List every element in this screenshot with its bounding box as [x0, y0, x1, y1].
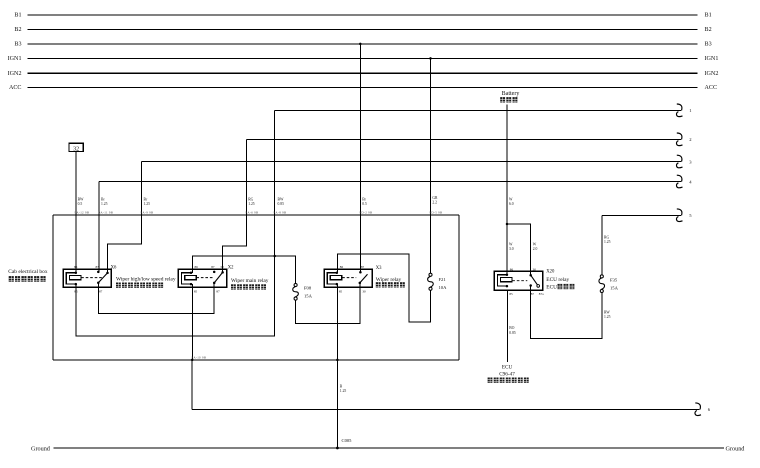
svg-text:87: 87 — [361, 265, 365, 269]
wire fuse F21 to relay X3 coil — [337, 254, 430, 322]
bus B2 — [28, 28, 698, 30]
svg-text:86: 86 — [195, 265, 199, 269]
svg-text:87: 87 — [216, 290, 220, 294]
wire right drop to bottom rail — [458, 215, 460, 360]
wire bottom rail to ground C005 — [336, 360, 338, 448]
svg-text:30: 30 — [362, 290, 366, 294]
svg-text:IGN1: IGN1 — [705, 56, 719, 62]
wire relay X3 coil return to bottom rail — [336, 284, 338, 360]
bus B3 — [28, 43, 698, 45]
wire main junction line — [53, 214, 459, 216]
svg-text:ACC: ACC — [705, 85, 718, 91]
svg-text:86: 86 — [510, 267, 514, 271]
svg-text:Ground: Ground — [726, 445, 746, 452]
fuse F08 15A — [294, 283, 297, 286]
svg-text:BW0.85: BW0.85 — [278, 198, 285, 207]
svg-text:B3: B3 — [705, 42, 712, 48]
relay X2 Wiper main relay — [178, 265, 268, 294]
relay X6 Wiper high/low speed relay — [63, 265, 176, 294]
svg-text:ECU: ECU — [546, 284, 557, 290]
svg-text:ECU: ECU — [502, 365, 513, 371]
svg-text:ECU relay: ECU relay — [546, 277, 569, 283]
svg-text:X2: X2 — [228, 265, 234, 270]
svg-text:86: 86 — [74, 265, 78, 269]
svg-text:Ground: Ground — [31, 445, 51, 452]
svg-text:9D-5 9B: 9D-5 9B — [430, 210, 443, 214]
wire fuse F08 to relay X3 switch — [296, 283, 360, 324]
svg-text:85: 85 — [509, 292, 513, 296]
svg-text:F35: F35 — [610, 277, 618, 282]
wire IGN1 column to fuse F21 — [430, 58, 432, 274]
svg-text:B2: B2 — [14, 27, 21, 33]
svg-text:9A-12 9B: 9A-12 9B — [75, 210, 90, 214]
svg-text:9A-6 9B: 9A-6 9B — [246, 210, 259, 214]
svg-text:15A: 15A — [304, 294, 313, 299]
relay X20 ECU relay — [494, 267, 574, 296]
wire battery branch to relay X20 pin 30 — [507, 224, 531, 275]
bus B1 — [28, 14, 698, 16]
svg-text:87: 87 — [211, 265, 215, 269]
off-page connector 4 — [677, 175, 682, 182]
wire bottom rail — [53, 359, 459, 361]
svg-text:15A: 15A — [610, 286, 619, 291]
svg-text:B1: B1 — [14, 12, 21, 18]
wire connector2 column to relay X2 pin 30 — [223, 139, 247, 272]
svg-text:IGN2: IGN2 — [705, 71, 719, 77]
svg-text:IGN1: IGN1 — [8, 56, 22, 62]
svg-text:32: 32 — [73, 146, 79, 152]
node junction on bottom rail left — [191, 359, 194, 362]
svg-text:9A-8 9B: 9A-8 9B — [274, 210, 287, 214]
wire relay X2 coil feed to fuse F08 — [192, 256, 295, 283]
off-page connector 3 — [677, 155, 682, 162]
node battery branch junction — [506, 223, 509, 226]
wire B3 column to relay X3 pin 87 — [359, 44, 361, 272]
wire connector1 column / X6 coil return loop — [76, 110, 275, 335]
svg-text:87: 87 — [531, 292, 535, 296]
svg-text:87: 87 — [99, 290, 103, 294]
bus IGN2 — [28, 72, 698, 74]
off-page connector 2 — [677, 133, 682, 140]
svg-text:RW1.25: RW1.25 — [604, 310, 611, 319]
svg-text:Wiper main relay: Wiper main relay — [231, 278, 269, 284]
svg-text:X20: X20 — [546, 269, 555, 274]
svg-text:B1: B1 — [705, 12, 712, 18]
wire relay X6 switch to relay X2 switch — [98, 283, 214, 314]
svg-text:30: 30 — [533, 267, 537, 271]
svg-text:30: 30 — [220, 265, 224, 269]
svg-text:9A-9 9B: 9A-9 9B — [141, 210, 154, 214]
wire relay X20 coil to ECU — [506, 290, 508, 362]
svg-text:Wiper high/low speed relay: Wiper high/low speed relay — [116, 276, 176, 282]
fuse F35 15A — [600, 275, 603, 278]
wire to connector 4 — [99, 181, 681, 183]
svg-text:B3: B3 — [14, 42, 21, 48]
ground rail — [54, 447, 725, 449]
svg-text:C005: C005 — [342, 438, 353, 443]
wire connector3 column to relay X6 pin 30 — [108, 162, 142, 273]
svg-text:9D-2 9B: 9D-2 9B — [360, 210, 373, 214]
svg-text:X6: X6 — [111, 265, 117, 270]
wire fuse F35 to connector 5 line — [601, 215, 603, 275]
wire relay X20 pin 87 to fuse F35 — [531, 286, 602, 339]
svg-text:F21: F21 — [439, 277, 447, 282]
svg-text:IGN2: IGN2 — [8, 71, 22, 77]
svg-text:Battery: Battery — [502, 91, 520, 97]
svg-text:86: 86 — [340, 265, 344, 269]
off-page connector 1 — [677, 104, 682, 111]
bus ACC — [28, 87, 698, 89]
svg-text:Wiper relay: Wiper relay — [376, 277, 402, 283]
node junction on coil feed — [273, 255, 276, 258]
bus IGN1 — [28, 57, 698, 59]
off-page connector 6 — [695, 403, 700, 410]
wire connector4 column to relay X6 pin 87 — [98, 182, 100, 272]
node tap on IGN1 — [429, 57, 432, 60]
svg-text:10A: 10A — [439, 285, 448, 290]
node tap on B3 — [359, 43, 362, 46]
svg-text:85: 85 — [194, 290, 198, 294]
svg-text:87a: 87a — [539, 292, 544, 296]
node junction on bottom rail right — [336, 359, 339, 362]
wire to connector 3 — [142, 161, 681, 163]
svg-text:F08: F08 — [304, 286, 312, 291]
svg-text:87: 87 — [96, 265, 100, 269]
fuse F21 10A — [429, 273, 432, 276]
svg-text:X3: X3 — [376, 266, 382, 271]
svg-text:9A-10 9B: 9A-10 9B — [192, 355, 207, 359]
wire to connector 1 — [275, 109, 681, 111]
svg-text:C96-47: C96-47 — [499, 372, 515, 378]
wire left drop to bottom rail — [52, 215, 54, 360]
wire relay X2 coil return to bottom rail and connector 6 — [191, 284, 193, 409]
svg-text:85: 85 — [74, 290, 78, 294]
svg-text:B2: B2 — [705, 27, 712, 33]
svg-text:9A-11 9B: 9A-11 9B — [99, 210, 114, 214]
svg-text:Cab electrical box: Cab electrical box — [8, 269, 48, 275]
wire to connector 6 — [192, 408, 700, 410]
terminal box 32 — [69, 143, 83, 151]
wire G2 column to relay X6 coil — [75, 152, 77, 273]
relay X3 Wiper relay — [324, 265, 405, 294]
wire to connector 5 — [602, 214, 681, 216]
node ground junction C005 — [336, 447, 339, 450]
svg-text:85: 85 — [339, 290, 343, 294]
wire to connector 2 — [246, 138, 681, 140]
svg-text:ACC: ACC — [9, 85, 22, 91]
wire battery column — [506, 105, 508, 276]
off-page connector 5 — [677, 209, 682, 216]
